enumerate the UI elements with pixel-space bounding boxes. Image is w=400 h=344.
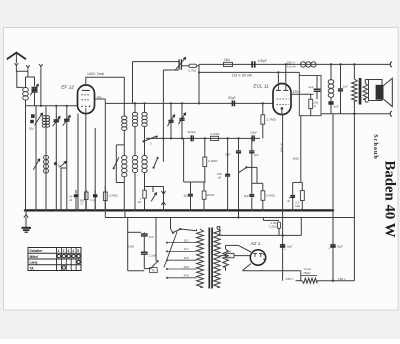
cap 100pF leg <box>227 138 229 173</box>
ground lead <box>25 210 27 214</box>
resistor 150ohm <box>309 99 313 108</box>
svg-text:0,7kΩ: 0,7kΩ <box>188 68 197 72</box>
IF coil column 2 <box>134 103 136 112</box>
tube AZ1 <box>250 250 265 265</box>
wire V x46 <box>45 106 47 211</box>
field coil resistor <box>353 64 355 79</box>
svg-text:Baden 40 W: Baden 40 W <box>381 160 397 237</box>
svg-text:1,2kΩ: 1,2kΩ <box>269 225 277 229</box>
AZ1 anode wire 2 <box>243 264 251 271</box>
cap 10pF <box>191 135 193 141</box>
svg-text:150: 150 <box>184 256 189 260</box>
svg-text:Schalter: Schalter <box>30 249 44 253</box>
ECL11 output line 225V <box>291 93 314 95</box>
wire node line y106 <box>26 105 78 107</box>
voltage selector <box>164 231 177 267</box>
cap 2nF leg <box>251 138 253 150</box>
ECL11 cathode dot <box>281 107 284 110</box>
svg-text:2: 2 <box>63 249 65 253</box>
resistor 20k leg <box>203 182 205 191</box>
wire V x36 <box>35 106 37 211</box>
speaker frame <box>369 80 383 101</box>
svg-text:245 v: 245 v <box>286 277 294 281</box>
ECL11 anode feed 1 <box>277 72 279 83</box>
cap 5nF leg <box>238 138 240 150</box>
line 165V <box>296 280 303 282</box>
wave switch S2b <box>60 161 67 167</box>
cap 1.5nF phono <box>141 252 148 254</box>
wire box down <box>300 116 302 183</box>
svg-text:2kΩ: 2kΩ <box>224 58 230 62</box>
EF12 grid dashes <box>81 94 90 96</box>
svg-text:EF 12: EF 12 <box>61 85 74 91</box>
svg-text:5nF: 5nF <box>334 105 339 109</box>
antenna tank wiring <box>26 77 35 106</box>
svg-text:2nF: 2nF <box>254 153 259 157</box>
svg-text:110: 110 <box>184 238 189 242</box>
wire trim to res <box>181 65 189 67</box>
EF12 cathode dots <box>81 106 83 108</box>
wire filter chain <box>282 210 284 280</box>
resistor 0.2M mid <box>204 138 206 157</box>
svg-text:2μF: 2μF <box>309 85 314 89</box>
wire V x331 <box>330 64 332 79</box>
cap 5uF leg <box>190 182 192 193</box>
wire V x340.5 <box>340 64 342 88</box>
line 115V y72.4 <box>199 71 299 73</box>
cap 0.1uF bypass <box>94 190 96 194</box>
svg-text:5nF: 5nF <box>225 153 230 157</box>
svg-text:0,7MΩ: 0,7MΩ <box>266 193 276 197</box>
wire x300.8 down <box>300 271 302 281</box>
wire V x199 <box>198 64 200 103</box>
svg-text:1: 1 <box>58 249 60 253</box>
bracket y182 <box>184 181 206 183</box>
choke coil <box>301 62 306 67</box>
terminal A2 <box>26 65 30 69</box>
resistor 0.2M left <box>104 186 106 192</box>
dots on grid line <box>134 102 136 104</box>
wire TA leg <box>155 218 157 262</box>
resistor 0.7M leg <box>262 183 264 191</box>
cap 2uF <box>314 89 321 91</box>
antenna <box>7 53 26 60</box>
svg-text:140V, 2mA: 140V, 2mA <box>87 72 105 76</box>
IF coil column 3 <box>144 103 146 112</box>
second filter leg <box>332 114 334 281</box>
svg-text:TA: TA <box>30 266 35 270</box>
svg-text:10μF: 10μF <box>250 131 257 135</box>
hook terminal bottom right <box>390 111 392 117</box>
EF12 cathode wire <box>85 114 87 211</box>
resistor 0.1M <box>211 136 219 140</box>
svg-text:Schaub: Schaub <box>372 134 379 160</box>
resistor 2k <box>224 62 233 66</box>
switch S3 <box>144 136 156 141</box>
terminal A3 <box>39 64 43 68</box>
switch on branch <box>114 157 119 168</box>
AZ1 anodes <box>253 253 262 257</box>
wire S4 to TA bus <box>238 173 240 218</box>
wire y70 stub <box>163 69 178 71</box>
cap 100uF <box>252 61 255 67</box>
svg-text:TA: TA <box>151 269 155 273</box>
output transformer core <box>359 78 362 105</box>
svg-text:Ω: Ω <box>81 201 83 205</box>
svg-text:3,2mA: 3,2mA <box>287 65 297 69</box>
resistor 1k col3 <box>143 190 147 198</box>
svg-text:50μF: 50μF <box>228 96 235 100</box>
output coil <box>328 80 334 84</box>
wire field down <box>353 101 355 281</box>
wire V x95 <box>94 128 96 210</box>
wire x183.6 <box>183 138 185 182</box>
mains switch S5 <box>170 218 172 229</box>
cap leg AF <box>251 183 253 193</box>
speaker cone <box>383 78 392 106</box>
dot anode junction <box>277 71 279 73</box>
supply line y64.4 <box>199 63 390 65</box>
wire grid line y103.4 <box>104 99 106 210</box>
HV line to filter <box>216 227 218 229</box>
ECL11 anode feed 2 <box>285 64 287 83</box>
svg-text:pF: pF <box>218 176 222 180</box>
switch S2c <box>154 158 158 168</box>
svg-text:AZ 1: AZ 1 <box>250 241 261 246</box>
wire x163 down <box>162 70 164 162</box>
tube ECL11 envelope <box>273 84 291 115</box>
antenna coil L1 <box>23 88 29 92</box>
svg-text:5μF: 5μF <box>184 194 190 198</box>
TA switch <box>151 261 158 268</box>
bus junction dots <box>24 209 27 212</box>
tone network box <box>299 76 321 116</box>
coupling cap 50uF on grid line <box>232 101 234 107</box>
wave switch S2a <box>33 159 40 170</box>
resistor 0.7k <box>189 64 197 67</box>
cap 50uF bypass <box>75 190 77 194</box>
tube EF12 envelope <box>78 85 95 114</box>
ECL11 grid resistor 1.7M <box>262 103 264 114</box>
svg-text:8μF: 8μF <box>337 244 343 248</box>
svg-text:μF: μF <box>69 198 73 202</box>
voltage taps <box>167 242 197 244</box>
bracket y183.3 <box>252 182 263 184</box>
fuse lamp <box>163 187 165 211</box>
cap 8uF second <box>330 245 335 247</box>
svg-text:0,1MΩ: 0,1MΩ <box>210 132 220 136</box>
svg-text:kΩ: kΩ <box>138 200 142 204</box>
EF12 anode lead <box>86 77 125 85</box>
wire V x61 <box>61 168 66 210</box>
svg-text:310pF: 310pF <box>187 130 196 134</box>
svg-text:0,2MΩ: 0,2MΩ <box>109 194 119 198</box>
resistor 4.3ohm from mains bus <box>262 218 264 221</box>
phono cap leg <box>127 218 129 271</box>
EF12 pin wire <box>77 114 79 211</box>
band switch S1 contacts <box>31 114 35 118</box>
svg-text:3: 3 <box>68 249 70 253</box>
col1 branch loop <box>116 144 124 146</box>
coil L3 <box>44 155 49 159</box>
svg-text:1MΩ: 1MΩ <box>128 244 135 248</box>
svg-text:200: 200 <box>184 265 189 269</box>
ground bus y210.4 <box>26 209 333 211</box>
svg-text:1,5nF: 1,5nF <box>149 254 157 258</box>
wire antenna to A2 <box>16 68 28 77</box>
resistor 0.3M <box>300 191 304 201</box>
AZ1 anode wire 1 <box>226 244 239 246</box>
svg-text:25kΩ: 25kΩ <box>303 271 311 275</box>
resistor 500 <box>226 253 234 257</box>
svg-text:37 mA: 37 mA <box>279 143 283 153</box>
svg-text:10p: 10p <box>97 95 102 99</box>
oscillator coil L2 <box>42 116 46 119</box>
transformer secondary <box>214 229 220 288</box>
svg-text:+: + <box>284 248 286 252</box>
svg-text:500: 500 <box>226 250 231 254</box>
bracket y182.4 <box>293 181 303 183</box>
svg-text:0,2MΩ: 0,2MΩ <box>208 159 218 163</box>
speaker driver <box>376 85 383 100</box>
wire antenna down <box>17 71 24 87</box>
cap 1nF out <box>338 89 343 91</box>
trimmer C osc <box>178 59 180 69</box>
cap 8uF first <box>280 245 285 247</box>
EF12 anode bar <box>82 89 90 91</box>
svg-text:127: 127 <box>184 247 189 251</box>
transformer core <box>208 228 210 289</box>
svg-text:1MΩ: 1MΩ <box>293 157 300 161</box>
EF12 grid stub 10pF <box>95 98 106 100</box>
variable capacitor C1 <box>32 88 38 90</box>
svg-text:1nF: 1nF <box>343 84 348 88</box>
svg-text:20kΩ: 20kΩ <box>207 193 215 197</box>
cap 1nF phono <box>141 234 148 236</box>
svg-text:Mittel: Mittel <box>30 255 39 259</box>
speaker voice coil <box>363 83 367 100</box>
wire lamp top <box>145 186 164 188</box>
junction node <box>54 162 57 165</box>
switch position table <box>28 248 81 271</box>
dots on detector line <box>162 137 164 139</box>
ECL11 cathode lead <box>281 108 284 210</box>
wire y270.8 left <box>128 270 145 272</box>
svg-text:MΩ: MΩ <box>295 204 299 208</box>
mains bus y217.5 <box>105 217 354 219</box>
IF coil column 1 <box>123 77 125 116</box>
transformer primary <box>197 229 204 287</box>
svg-text:1,7MΩ: 1,7MΩ <box>267 118 277 122</box>
svg-text:Lang: Lang <box>30 261 38 265</box>
output line y113.8 <box>321 113 390 115</box>
wire to primary <box>180 229 196 231</box>
cap 5nF out <box>328 102 333 104</box>
ECL11 grid dashes <box>276 98 288 100</box>
svg-text:1nF: 1nF <box>149 235 154 239</box>
resistor 300ohm <box>85 190 87 192</box>
wire A3 down <box>40 69 42 106</box>
svg-text:100μF: 100μF <box>258 59 267 63</box>
wire y61.6 <box>133 61 180 63</box>
svg-text:240: 240 <box>184 274 189 278</box>
wire col1 to bus <box>123 190 125 210</box>
trimmer C2 <box>55 106 57 211</box>
svg-text:ECL 11: ECL 11 <box>253 84 269 90</box>
svg-text:nF: nF <box>287 199 291 203</box>
svg-text:8μF: 8μF <box>287 244 293 248</box>
detector line y138.4 <box>146 137 260 139</box>
mains switch S7 <box>151 192 156 201</box>
switch S4 <box>239 167 247 172</box>
padder C x171 <box>170 103 172 138</box>
trimmer C3 <box>66 106 68 211</box>
svg-text:+: + <box>328 246 330 250</box>
ground symbol <box>22 227 32 229</box>
svg-text:5μF: 5μF <box>244 194 249 198</box>
padder C x182 <box>181 103 183 138</box>
cap 10uF <box>252 135 254 141</box>
svg-text:0,1μ: 0,1μ <box>90 198 96 202</box>
hook terminal top right <box>390 62 392 68</box>
svg-text:4: 4 <box>72 249 74 253</box>
svg-text:115 V, 65 mA: 115 V, 65 mA <box>232 74 253 78</box>
wire up from S4 <box>256 167 258 183</box>
antenna terminal A1 <box>15 63 19 67</box>
wire V x25.5 <box>25 106 27 211</box>
junction dots on y106 <box>40 105 42 107</box>
cap 5nF leg2 <box>292 182 294 194</box>
svg-text:5: 5 <box>77 249 79 253</box>
svg-text:6,3: 6,3 <box>227 255 231 259</box>
svg-text:50μ: 50μ <box>29 127 34 131</box>
cathode line y270.8 <box>243 270 301 272</box>
svg-text:165 v: 165 v <box>338 277 346 281</box>
heater winding <box>223 249 229 267</box>
ECL11 anode bars <box>276 89 281 91</box>
